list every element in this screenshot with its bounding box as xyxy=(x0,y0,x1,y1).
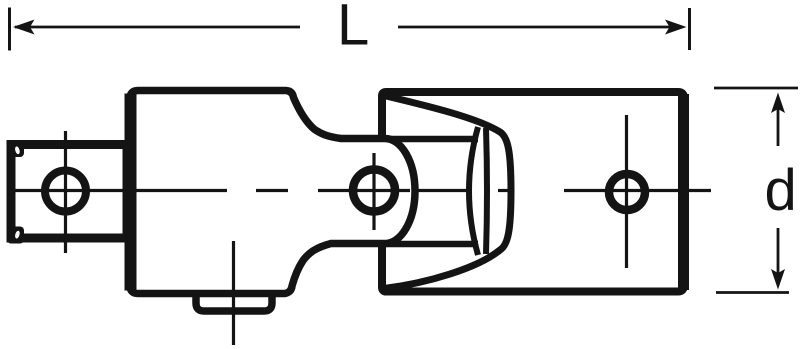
dimension line left segment xyxy=(15,26,300,29)
main axis tick on ball curve xyxy=(498,189,511,192)
pivot circle xyxy=(353,170,395,212)
top extension tick xyxy=(714,87,798,90)
left extension tick xyxy=(8,8,11,51)
small hole vertical centerline xyxy=(625,115,628,268)
svg-text:L: L xyxy=(337,0,369,58)
bottom extension tick xyxy=(716,291,789,294)
sleeve body outline xyxy=(382,92,684,292)
right arrowhead xyxy=(665,20,687,35)
main axis segment right of pivot xyxy=(417,189,466,192)
tang chamfer notch bottom-left xyxy=(14,230,20,239)
main axis segment through small hole xyxy=(564,189,711,192)
socket mouth inner arc (left) xyxy=(469,127,478,255)
sleeve right edge (thick) xyxy=(678,94,689,290)
pivot vertical centerline xyxy=(372,153,375,230)
tang corner boss top-left xyxy=(7,141,24,158)
tab vertical centerline xyxy=(232,241,235,345)
tang ball detent circle xyxy=(45,171,86,212)
right yoke prong bottom edge xyxy=(383,241,478,248)
body left edge (thick) xyxy=(125,94,137,291)
svg-text:d: d xyxy=(765,158,797,223)
left arrowhead xyxy=(13,20,35,35)
up arrowhead xyxy=(771,93,785,114)
tang outline xyxy=(11,145,127,239)
socket mouth inner arc (right) xyxy=(486,128,487,254)
main axis segment through tang and body xyxy=(12,189,227,192)
tang chamfer notch top-left xyxy=(14,146,20,155)
tang corner boss bottom-left xyxy=(7,227,24,244)
right yoke prong top edge xyxy=(383,136,478,143)
tang circle vertical centerline xyxy=(64,131,67,253)
main axis dash xyxy=(256,189,288,192)
main axis segment through pivot xyxy=(318,189,410,192)
right extension tick xyxy=(688,8,691,50)
down arrow shaft xyxy=(777,228,780,277)
body with yoke nose outline xyxy=(130,91,415,294)
small hole circle in sleeve xyxy=(609,174,645,210)
up arrow shaft xyxy=(777,105,780,146)
ball end curve (D-shaped) xyxy=(384,96,511,289)
dimension line right segment xyxy=(398,26,670,29)
down arrowhead xyxy=(771,269,785,290)
pin boss tab (bottom) xyxy=(196,290,272,311)
